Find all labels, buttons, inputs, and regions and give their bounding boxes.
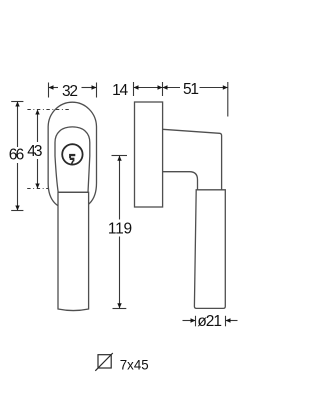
svg-text:ø21: ø21 xyxy=(197,313,222,330)
svg-text:14: 14 xyxy=(112,82,128,99)
svg-text:119: 119 xyxy=(108,220,132,237)
svg-text:51: 51 xyxy=(183,81,199,98)
svg-text:7x45: 7x45 xyxy=(120,358,149,373)
svg-text:32: 32 xyxy=(62,83,78,100)
svg-text:43: 43 xyxy=(27,143,42,160)
svg-text:66: 66 xyxy=(9,147,25,164)
